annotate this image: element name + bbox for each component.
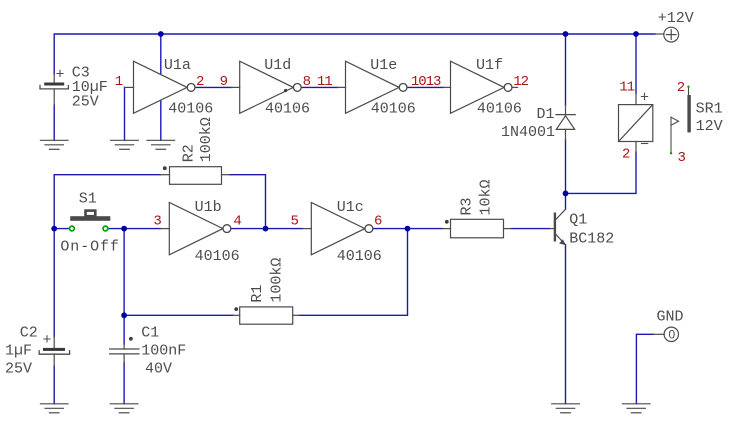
+12V supply symbol [664, 27, 679, 42]
wire relay coil top drop [635, 34, 637, 93]
ground under C1 [110, 404, 138, 413]
wire S1 left stub [54, 228, 69, 230]
capacitor C1 plate top [110, 348, 139, 350]
svg-text:BC182: BC182 [569, 230, 614, 247]
wire GND symbol to ground [636, 334, 653, 404]
junction C1 R1 [121, 312, 127, 318]
svg-text:4: 4 [233, 214, 241, 230]
pin stub U1d input [231, 86, 240, 88]
pin stub C1 top [123, 344, 125, 349]
pin stub U1e input [338, 86, 346, 88]
wire Q1 emitter to ground [565, 245, 567, 404]
svg-text:S1: S1 [79, 191, 97, 208]
svg-text:Q1: Q1 [569, 212, 587, 229]
relay SR1 contact pin 2 lead [688, 86, 690, 95]
svg-text:40106: 40106 [168, 100, 213, 117]
svg-text:C2: C2 [20, 325, 38, 342]
relay SR1 contact flag [671, 117, 679, 125]
junction top rail U1a VDD [158, 31, 164, 37]
resistor R2 origin dot [163, 166, 167, 170]
svg-text:3: 3 [678, 150, 686, 166]
svg-text:40106: 40106 [477, 100, 522, 117]
svg-text:GND: GND [657, 308, 684, 325]
ground under Q1 emitter [552, 404, 580, 413]
svg-text:C1: C1 [141, 325, 159, 342]
wire U1c out to R3 [374, 228, 443, 230]
pin stub D1 bottom [565, 129, 567, 140]
svg-text:2: 2 [622, 147, 630, 163]
ground under U1a VSS [147, 140, 175, 149]
svg-text:40106: 40106 [265, 100, 310, 117]
wire C1 node to R1 [124, 314, 233, 316]
svg-text:10kΩ: 10kΩ [478, 179, 495, 215]
junction U1c output R1 R3 [405, 226, 411, 232]
svg-text:1N4001: 1N4001 [501, 124, 555, 141]
wire relay coil bottom to node [566, 152, 637, 193]
wire R3 to Q1 base [511, 228, 550, 230]
svg-text:2: 2 [677, 80, 685, 96]
junction S1 right [121, 226, 127, 232]
svg-text:100kΩ: 100kΩ [198, 117, 215, 162]
switch S1 bar [70, 216, 110, 221]
capacitor C1 plate bottom [110, 353, 139, 355]
GND supply symbol circle [664, 327, 678, 341]
op-amp U1b inverter triangle [169, 202, 223, 254]
pin stub U1f output [512, 86, 517, 88]
resistor R1 origin dot [234, 307, 238, 311]
pin stub relay bottom [635, 142, 637, 153]
diode D1 cathode bar [556, 114, 575, 116]
svg-text:D1: D1 [537, 106, 555, 123]
svg-text:40V: 40V [145, 361, 172, 378]
capacitor C2 plus plate [43, 348, 65, 351]
U1f output bubble [504, 84, 512, 92]
relay SR1 coil diagonal [619, 105, 652, 140]
ground under U1a input [111, 140, 139, 149]
svg-text:R2: R2 [180, 144, 197, 162]
relay SR1 contact pin 2 tip [687, 86, 689, 88]
pin stub U1b input [161, 228, 170, 230]
svg-text:3: 3 [153, 214, 161, 230]
transistor Q1 base bar [554, 214, 556, 241]
ground under C2 [40, 404, 68, 413]
svg-text:6: 6 [374, 214, 382, 230]
resistor R1 body [240, 307, 293, 324]
svg-text:11: 11 [317, 74, 332, 90]
svg-text:12V: 12V [696, 118, 723, 135]
wire S1 right to U1b input [108, 228, 161, 230]
op-amp U1e inverter triangle [346, 61, 400, 113]
transistor Q1 emitter lead [556, 235, 566, 245]
pin stub C2 bottom [53, 354, 55, 366]
wire node to Q1 collector [565, 193, 567, 209]
svg-text:R3: R3 [458, 197, 475, 215]
svg-text:40106: 40106 [195, 248, 240, 265]
wire top +12V rail [54, 34, 655, 74]
pin stub R1 left [233, 314, 240, 316]
relay SR1 contact pin 3 lead [670, 117, 672, 153]
relay SR1 coil box [619, 105, 653, 142]
pin stub C1 bottom [123, 354, 125, 363]
svg-text:100nF: 100nF [141, 343, 186, 360]
transistor Q1 collector lead [556, 209, 566, 219]
pin stub R3 left [443, 228, 451, 230]
pin stub U1c input [303, 228, 312, 230]
svg-text:40106: 40106 [337, 248, 382, 265]
svg-text:40106: 40106 [371, 100, 416, 117]
wire U1a VDD drop [160, 34, 162, 74]
svg-text:25V: 25V [5, 361, 32, 378]
svg-text:R1: R1 [249, 285, 266, 303]
capacitor C1 origin dot [129, 337, 133, 341]
wire left vertical R2 row to C2 [54, 175, 160, 337]
svg-text:8: 8 [303, 74, 311, 90]
capacitor C3 plus plate [44, 83, 64, 86]
pin stub R2 right [222, 174, 230, 176]
svg-text:11: 11 [619, 80, 634, 96]
wire D1 bottom to node [565, 140, 567, 193]
ground under C3 [40, 140, 68, 149]
svg-text:+: + [56, 67, 65, 84]
svg-text:U1d: U1d [264, 57, 291, 74]
wire U1a VSS to ground [160, 101, 162, 141]
svg-text:U1c: U1c [337, 199, 364, 216]
resistor R3 body [451, 219, 504, 238]
pin stub GND [654, 333, 665, 335]
svg-text:2: 2 [196, 74, 204, 90]
svg-text:12: 12 [513, 74, 528, 90]
pin stub U1f input [443, 86, 451, 88]
switch S1 left terminal [70, 226, 75, 231]
U1c output bubble [365, 225, 373, 233]
svg-text:U1f: U1f [476, 57, 503, 74]
switch S1 right terminal [103, 226, 108, 231]
wire R1 right up to U1c output node [299, 229, 407, 316]
pin stub +12V [655, 33, 664, 35]
relay SR1 contact fixed bar [687, 95, 690, 132]
op-amp U1c inverter triangle [311, 202, 365, 254]
wire U1d out to U1e in [302, 86, 338, 88]
wire U1a input to ground [124, 87, 126, 140]
svg-text:100kΩ: 100kΩ [268, 258, 285, 303]
resistor R2 body [170, 167, 222, 185]
junction Q1 collector relay [563, 191, 569, 197]
pin stub relay top [635, 93, 637, 104]
U1d output bubble [293, 84, 301, 92]
transistor Q1 base lead [550, 228, 554, 230]
capacitor C2 minus plate cup [39, 351, 69, 354]
svg-text:5: 5 [291, 214, 299, 230]
svg-text:SR1: SR1 [696, 101, 723, 118]
svg-text:0: 0 [669, 328, 676, 342]
wire S1 node down to C1 [123, 229, 125, 345]
svg-text:25V: 25V [72, 94, 99, 111]
junction top rail relay [633, 31, 639, 37]
U1a output bubble [187, 84, 195, 92]
wire U1e out to U1f in [408, 86, 444, 88]
wire R2 right to U1b output node [229, 175, 265, 229]
svg-text:9: 9 [220, 74, 228, 90]
wire D1 top drop [565, 34, 567, 105]
junction top rail D1 [563, 31, 569, 37]
pin stub C3 bottom [53, 89, 55, 105]
svg-text:−: − [640, 137, 649, 154]
svg-text:On-Off: On-Off [60, 239, 119, 256]
ground under GND symbol [622, 404, 650, 413]
svg-text:+12V: +12V [658, 10, 694, 27]
pin stub C3 top [53, 74, 55, 83]
svg-text:U1e: U1e [370, 57, 397, 74]
junction S1 left [51, 226, 57, 232]
wire C2 bottom to ground [53, 366, 55, 404]
svg-text:+: + [640, 90, 649, 107]
op-amp U1a inverter triangle [134, 61, 188, 113]
svg-text:+: + [43, 332, 52, 349]
relay SR1 contact pin 3 tip [670, 152, 672, 154]
wire U1b out to U1c in [232, 228, 303, 230]
resistor R3 origin dot [445, 220, 449, 224]
U1d origin dot [284, 89, 287, 92]
svg-text:1013: 1013 [411, 74, 441, 90]
svg-text:U1a: U1a [164, 57, 191, 74]
pin stub R1 right [293, 314, 300, 316]
wire C3 bottom [53, 105, 55, 140]
pin stub R3 right [504, 228, 512, 230]
svg-text:U1b: U1b [195, 199, 222, 216]
switch S1 button [86, 211, 96, 217]
wire C1 bottom to ground [123, 362, 125, 403]
svg-text:1µF: 1µF [5, 343, 32, 360]
transistor Q1 emitter arrow [559, 239, 566, 245]
op-amp U1d inverter triangle [240, 61, 294, 113]
diode D1 triangle [556, 116, 574, 130]
pin stub D1 top [565, 105, 567, 115]
pin stub C2 top [53, 337, 55, 348]
U1b output bubble [223, 225, 231, 233]
capacitor C3 minus plate cup [40, 86, 68, 89]
junction U1b output R2 [263, 226, 269, 232]
svg-text:1: 1 [115, 74, 123, 90]
wire U1a out to U1d in [196, 86, 232, 88]
U1e output bubble [399, 84, 407, 92]
pin stub R2 left [160, 174, 169, 176]
op-amp U1f inverter triangle [451, 61, 505, 113]
pin stub U1a input [125, 86, 134, 88]
